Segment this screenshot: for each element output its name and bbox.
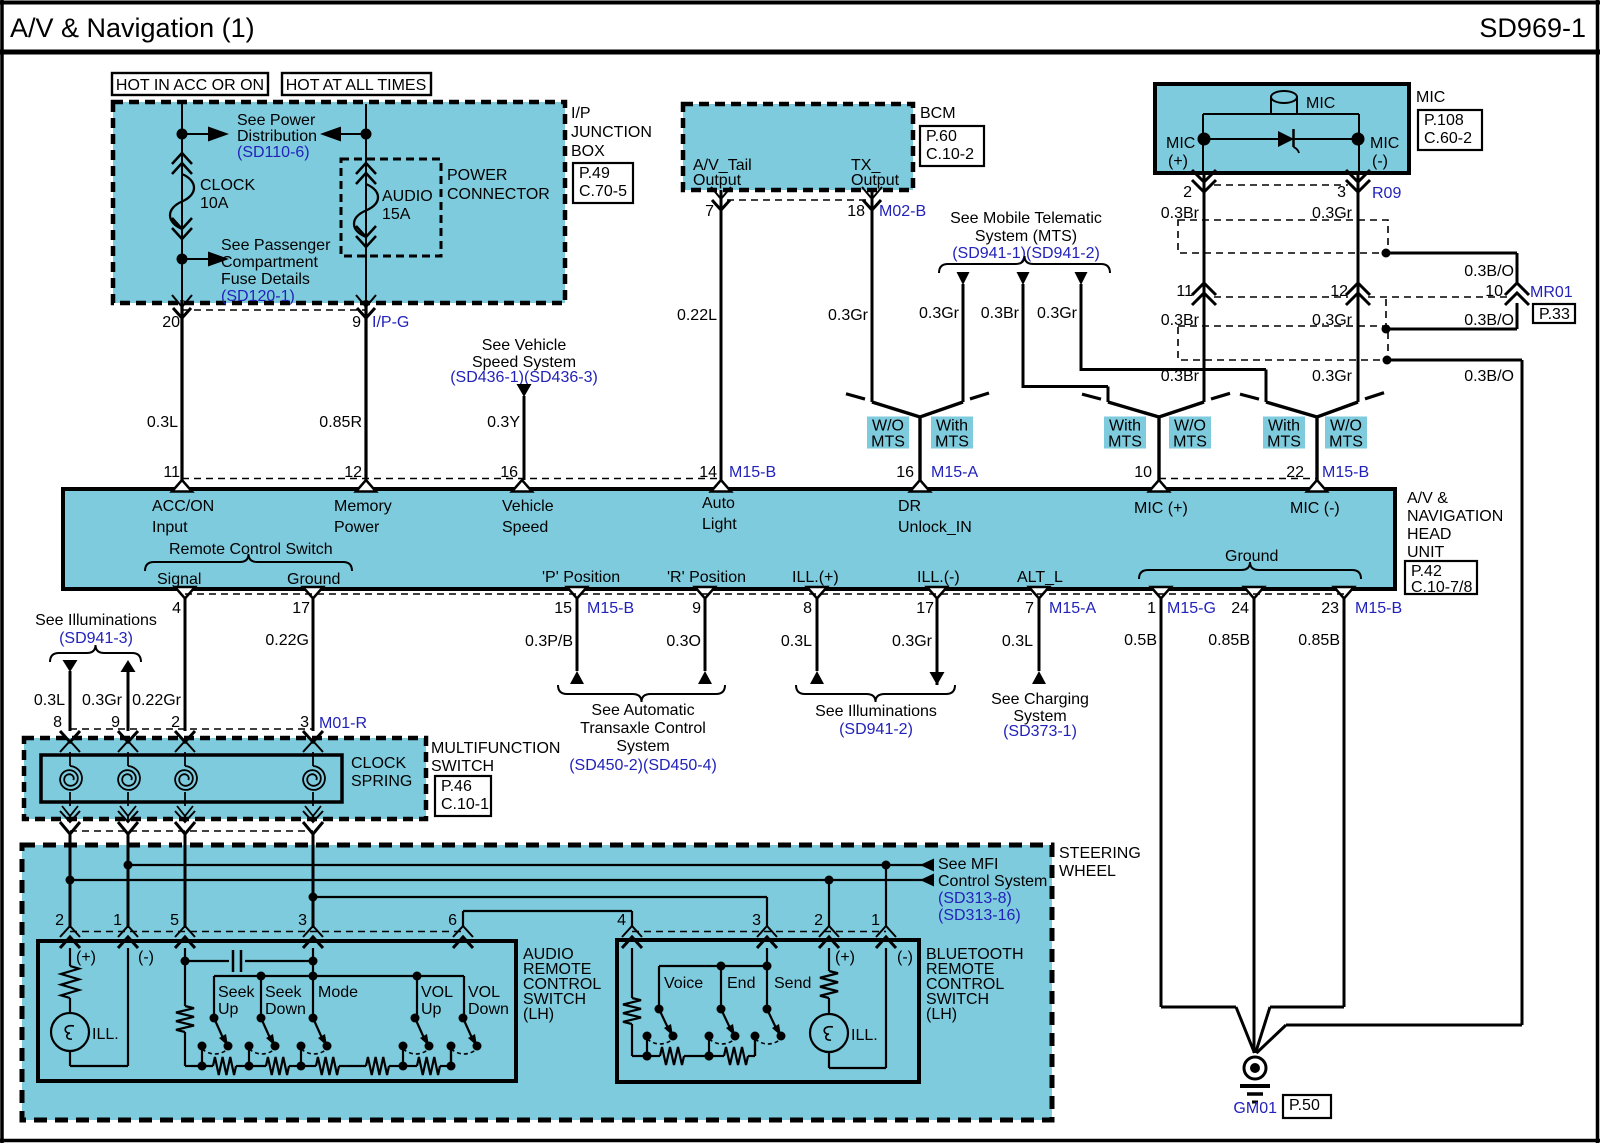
svg-text:15A: 15A (382, 206, 411, 223)
svg-text:'R' Position: 'R' Position (667, 569, 746, 586)
svg-text:Seek: Seek (218, 984, 255, 1001)
svg-text:ILL.: ILL. (92, 1026, 119, 1043)
svg-text:8: 8 (53, 714, 62, 731)
svg-text:A/V &: A/V & (1407, 490, 1448, 507)
svg-text:Power: Power (334, 519, 380, 536)
svg-text:I/P-G: I/P-G (372, 314, 409, 331)
svg-text:0.3Gr: 0.3Gr (1037, 305, 1078, 322)
svg-text:4: 4 (617, 912, 626, 929)
svg-text:See Mobile Telematic: See Mobile Telematic (950, 210, 1102, 227)
svg-text:'P' Position: 'P' Position (542, 569, 620, 586)
svg-text:End: End (727, 975, 755, 992)
svg-text:(SD941-2): (SD941-2) (839, 721, 913, 738)
svg-text:0.3B/O: 0.3B/O (1464, 368, 1514, 385)
svg-text:MIC: MIC (1416, 89, 1445, 106)
svg-text:P.50: P.50 (1289, 1097, 1320, 1114)
svg-text:M15-A: M15-A (931, 464, 978, 481)
svg-text:0.3Gr: 0.3Gr (828, 307, 869, 324)
svg-text:0.85B: 0.85B (1298, 632, 1340, 649)
svg-text:P.46: P.46 (441, 778, 472, 795)
svg-text:17: 17 (916, 600, 934, 617)
svg-text:Down: Down (468, 1001, 509, 1018)
svg-text:C.10-2: C.10-2 (926, 146, 974, 163)
svg-text:4: 4 (172, 600, 181, 617)
svg-text:Mode: Mode (318, 984, 358, 1001)
svg-text:MIC: MIC (1370, 135, 1399, 152)
svg-text:C.10-7/8: C.10-7/8 (1411, 579, 1472, 596)
svg-text:0.3Gr: 0.3Gr (82, 692, 123, 709)
svg-text:Transaxle Control: Transaxle Control (580, 720, 706, 737)
svg-text:1: 1 (113, 912, 122, 929)
svg-text:(LH): (LH) (926, 1006, 957, 1023)
svg-text:M15-B: M15-B (729, 464, 776, 481)
svg-text:(+): (+) (835, 949, 855, 966)
svg-text:2: 2 (55, 912, 64, 929)
svg-text:10: 10 (1485, 283, 1503, 300)
svg-text:WHEEL: WHEEL (1059, 863, 1116, 880)
svg-text:7: 7 (1025, 600, 1034, 617)
svg-text:MTS: MTS (935, 434, 969, 451)
svg-text:Up: Up (421, 1001, 442, 1018)
svg-text:See Illuminations: See Illuminations (35, 612, 157, 629)
svg-text:0.3Gr: 0.3Gr (1312, 368, 1353, 385)
svg-text:See Charging: See Charging (991, 691, 1089, 708)
svg-text:0.3B/O: 0.3B/O (1464, 312, 1514, 329)
svg-text:9: 9 (692, 600, 701, 617)
svg-text:VOL: VOL (421, 984, 453, 1001)
svg-text:MTS: MTS (871, 434, 905, 451)
svg-text:23: 23 (1321, 600, 1339, 617)
svg-text:Distribution: Distribution (237, 128, 317, 145)
svg-text:MIC: MIC (1166, 135, 1195, 152)
svg-text:0.85R: 0.85R (319, 414, 362, 431)
svg-text:10: 10 (1134, 464, 1152, 481)
svg-text:0.3Br: 0.3Br (981, 305, 1020, 322)
svg-text:(-): (-) (897, 949, 913, 966)
svg-text:DR: DR (898, 498, 921, 515)
svg-text:Ground: Ground (287, 571, 340, 588)
svg-text:MR01: MR01 (1530, 284, 1573, 301)
svg-text:9: 9 (352, 314, 361, 331)
svg-text:A/V & Navigation (1): A/V & Navigation (1) (10, 13, 255, 43)
svg-text:M02-B: M02-B (879, 203, 926, 220)
svg-text:Remote Control Switch: Remote Control Switch (169, 541, 333, 558)
svg-text:SD969-1: SD969-1 (1479, 13, 1586, 43)
svg-text:0.3L: 0.3L (1002, 633, 1033, 650)
svg-text:22: 22 (1286, 464, 1304, 481)
svg-text:0.3O: 0.3O (666, 633, 701, 650)
svg-text:ILL.: ILL. (851, 1027, 878, 1044)
svg-text:Auto: Auto (702, 495, 735, 512)
svg-text:0.3P/B: 0.3P/B (525, 633, 573, 650)
svg-text:Seek: Seek (265, 984, 302, 1001)
svg-text:0.85B: 0.85B (1208, 632, 1250, 649)
svg-text:18: 18 (847, 203, 865, 220)
svg-text:16: 16 (500, 464, 518, 481)
svg-text:(SD941-3): (SD941-3) (59, 630, 133, 647)
svg-text:(SD436-1)(SD436-3): (SD436-1)(SD436-3) (450, 369, 598, 386)
svg-text:16: 16 (896, 464, 914, 481)
svg-text:11: 11 (1176, 283, 1193, 300)
svg-text:With: With (936, 418, 968, 435)
svg-text:(SD313-16): (SD313-16) (938, 907, 1021, 924)
svg-text:MTS: MTS (1329, 434, 1363, 451)
svg-text:(-): (-) (1372, 153, 1388, 170)
svg-text:0.22Gr: 0.22Gr (132, 692, 182, 709)
svg-text:3: 3 (1337, 184, 1346, 201)
svg-text:(SD373-1): (SD373-1) (1003, 723, 1077, 740)
svg-text:0.5B: 0.5B (1124, 632, 1157, 649)
svg-text:0.3L: 0.3L (781, 633, 812, 650)
svg-text:5: 5 (170, 912, 179, 929)
svg-text:M15-G: M15-G (1167, 600, 1216, 617)
svg-text:SWITCH: SWITCH (431, 758, 494, 775)
svg-text:MTS: MTS (1173, 434, 1207, 451)
svg-text:HEAD: HEAD (1407, 526, 1451, 543)
svg-text:6: 6 (448, 912, 457, 929)
svg-text:3: 3 (752, 912, 761, 929)
svg-text:CLOCK: CLOCK (200, 177, 255, 194)
svg-text:CONNECTOR: CONNECTOR (447, 186, 550, 203)
svg-text:See Vehicle: See Vehicle (482, 337, 567, 354)
svg-text:Up: Up (218, 1001, 239, 1018)
svg-text:0.3L: 0.3L (147, 414, 178, 431)
svg-text:GM01: GM01 (1233, 1100, 1277, 1117)
svg-text:P.42: P.42 (1411, 563, 1442, 580)
svg-text:Speed: Speed (502, 519, 548, 536)
svg-text:Output: Output (851, 172, 900, 189)
svg-text:Unlock_IN: Unlock_IN (898, 519, 972, 536)
svg-text:I/P: I/P (571, 105, 591, 122)
svg-text:10A: 10A (200, 195, 229, 212)
svg-text:With: With (1268, 418, 1300, 435)
svg-text:W/O: W/O (1174, 418, 1206, 435)
svg-text:POWER: POWER (447, 167, 507, 184)
svg-text:With: With (1109, 418, 1141, 435)
svg-text:W/O: W/O (872, 418, 904, 435)
svg-text:Input: Input (152, 519, 188, 536)
svg-text:7: 7 (705, 203, 714, 220)
svg-text:NAVIGATION: NAVIGATION (1407, 508, 1503, 525)
svg-text:Signal: Signal (157, 571, 201, 588)
svg-text:VOL: VOL (468, 984, 500, 1001)
svg-text:See Passenger: See Passenger (221, 237, 331, 254)
svg-text:8: 8 (803, 600, 812, 617)
svg-text:(SD450-2)(SD450-4): (SD450-2)(SD450-4) (569, 757, 717, 774)
svg-text:11: 11 (163, 464, 180, 481)
svg-text:0.3B/O: 0.3B/O (1464, 263, 1514, 280)
svg-text:(SD120-1): (SD120-1) (221, 288, 295, 305)
svg-text:3: 3 (298, 912, 307, 929)
svg-text:STEERING: STEERING (1059, 845, 1141, 862)
svg-text:System: System (616, 738, 669, 755)
svg-text:(LH): (LH) (523, 1006, 554, 1023)
svg-text:See Automatic: See Automatic (591, 702, 694, 719)
svg-text:Light: Light (702, 516, 737, 533)
svg-text:MIC (-): MIC (-) (1290, 500, 1340, 517)
svg-text:HOT AT ALL TIMES: HOT AT ALL TIMES (286, 77, 427, 94)
svg-text:P.60: P.60 (926, 128, 957, 145)
svg-text:Fuse Details: Fuse Details (221, 271, 310, 288)
svg-text:M15-A: M15-A (1049, 600, 1096, 617)
svg-text:HOT IN ACC OR ON: HOT IN ACC OR ON (116, 77, 264, 94)
svg-text:Output: Output (693, 172, 742, 189)
svg-text:M15-B: M15-B (1322, 464, 1369, 481)
svg-text:1: 1 (1147, 600, 1156, 617)
svg-text:Ground: Ground (1225, 548, 1278, 565)
svg-text:Down: Down (265, 1001, 306, 1018)
svg-text:C.70-5: C.70-5 (579, 183, 627, 200)
svg-text:M15-B: M15-B (587, 600, 634, 617)
svg-text:BOX: BOX (571, 143, 605, 160)
svg-text:Send: Send (774, 975, 811, 992)
svg-text:See Power: See Power (237, 112, 316, 129)
svg-text:ILL.(-): ILL.(-) (917, 569, 960, 586)
svg-text:SPRING: SPRING (351, 773, 412, 790)
svg-text:R09: R09 (1372, 185, 1401, 202)
svg-text:0.3Y: 0.3Y (487, 414, 520, 431)
svg-text:(+): (+) (1168, 153, 1188, 170)
svg-text:(SD110-6): (SD110-6) (237, 144, 310, 161)
svg-text:ILL.(+): ILL.(+) (792, 569, 839, 586)
svg-text:C.10-1: C.10-1 (441, 796, 489, 813)
svg-text:MTS: MTS (1267, 434, 1301, 451)
svg-text:17: 17 (292, 600, 310, 617)
svg-text:BCM: BCM (920, 105, 956, 122)
svg-text:System (MTS): System (MTS) (975, 228, 1077, 245)
svg-text:2: 2 (814, 912, 823, 929)
svg-text:P.108: P.108 (1424, 112, 1464, 129)
svg-text:MIC (+): MIC (+) (1134, 500, 1188, 517)
svg-text:(SD313-8): (SD313-8) (938, 890, 1012, 907)
svg-text:Voice: Voice (664, 975, 703, 992)
svg-text:Memory: Memory (334, 498, 392, 515)
svg-text:24: 24 (1231, 600, 1249, 617)
svg-text:MIC: MIC (1306, 95, 1335, 112)
svg-text:15: 15 (554, 600, 572, 617)
svg-text:Compartment: Compartment (221, 254, 318, 271)
svg-text:C.60-2: C.60-2 (1424, 130, 1472, 147)
svg-text:0.3Br: 0.3Br (1161, 368, 1200, 385)
svg-text:(-): (-) (138, 949, 154, 966)
svg-text:1: 1 (871, 912, 880, 929)
svg-text:(+): (+) (76, 949, 96, 966)
svg-text:0.3Gr: 0.3Gr (892, 633, 933, 650)
svg-text:W/O: W/O (1330, 418, 1362, 435)
svg-text:CLOCK: CLOCK (351, 755, 406, 772)
svg-text:2: 2 (1183, 184, 1192, 201)
svg-text:P.49: P.49 (579, 165, 610, 182)
svg-text:0.3Gr: 0.3Gr (919, 305, 960, 322)
svg-text:20: 20 (162, 314, 180, 331)
svg-text:MTS: MTS (1108, 434, 1142, 451)
svg-text:Control System: Control System (938, 873, 1047, 890)
svg-text:ACC/ON: ACC/ON (152, 498, 214, 515)
svg-text:See Illuminations: See Illuminations (815, 703, 937, 720)
svg-text:AUDIO: AUDIO (382, 188, 433, 205)
svg-text:12: 12 (344, 464, 362, 481)
svg-text:0.22L: 0.22L (677, 307, 717, 324)
svg-text:12: 12 (1330, 283, 1348, 300)
svg-text:ALT_L: ALT_L (1017, 569, 1063, 586)
svg-text:MULTIFUNCTION: MULTIFUNCTION (431, 740, 560, 757)
svg-text:See MFI: See MFI (938, 856, 998, 873)
svg-text:M15-B: M15-B (1355, 600, 1402, 617)
svg-text:M01-R: M01-R (319, 715, 367, 732)
svg-text:JUNCTION: JUNCTION (571, 124, 652, 141)
svg-text:Vehicle: Vehicle (502, 498, 554, 515)
svg-text:P.33: P.33 (1539, 306, 1570, 323)
svg-text:UNIT: UNIT (1407, 544, 1445, 561)
svg-text:0.3L: 0.3L (34, 692, 65, 709)
svg-text:14: 14 (699, 464, 717, 481)
svg-text:0.22G: 0.22G (265, 632, 309, 649)
